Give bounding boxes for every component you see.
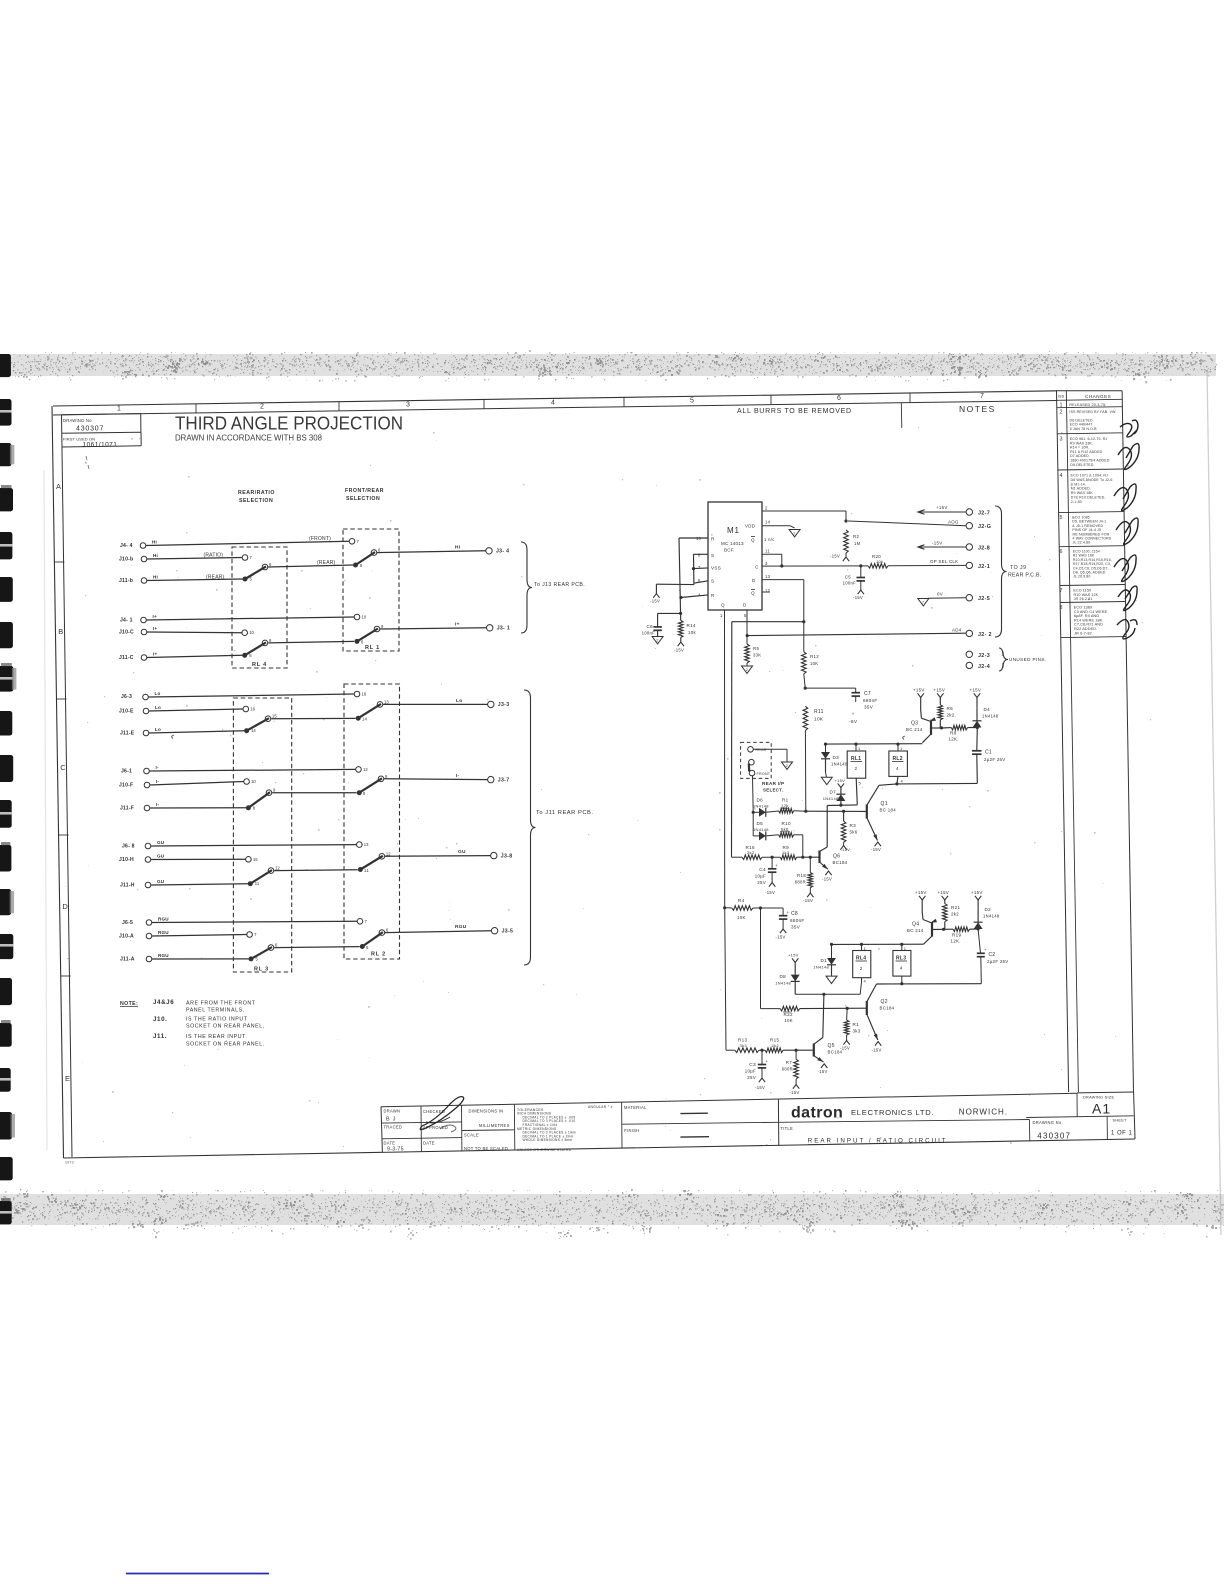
svg-text:J11-C: J11-C [119,655,134,661]
svg-text:RELEASED 20-3-75.: RELEASED 20-3-75. [1069,403,1106,407]
svg-text:+15V: +15V [934,688,946,693]
svg-text:WHOLE DIMENSIONS ± 5mm: WHOLE DIMENSIONS ± 5mm [523,1138,573,1142]
svg-text:R8: R8 [950,731,957,736]
paper edge right [1207,370,1221,1235]
svg-text:NORWICH.: NORWICH. [959,1107,1008,1116]
svg-text:5k6: 5k6 [781,827,789,832]
svg-text:C4: C4 [759,867,766,873]
diode D3 1N4148 [824,743,827,746]
svg-text:1k3: 1k3 [782,850,790,855]
diode D4 1N4148 [973,721,982,728]
svg-text:DATE: DATE [423,1141,435,1146]
svg-text:100nF: 100nF [843,581,857,586]
svg-text:-15V: -15V [790,1090,800,1095]
resistor R20 10k [868,564,888,569]
svg-text:-15V: -15V [872,1048,882,1053]
drawing number box [62,414,141,415]
svg-text:7: 7 [980,393,984,400]
svg-text:J10-C: J10-C [119,630,134,636]
brace To J11 REAR PCB [524,690,536,965]
relay RL2 contact arm GU [360,856,383,870]
svg-text:35V: 35V [791,925,801,930]
svg-text:ANGULAR ° ±: ANGULAR ° ± [588,1105,613,1109]
changes signatures [1120,420,1138,437]
svg-text:I-: I- [156,802,159,807]
resistor R1 12k [779,809,794,814]
svg-text:BC184: BC184 [828,1050,843,1055]
resistor R3 5k6 [842,810,845,813]
svg-text:GU: GU [458,849,466,855]
svg-text:RGU: RGU [455,924,467,930]
blue underline bottom [126,1573,269,1575]
wire R20 to J2-1 [888,564,966,566]
svg-text:8: 8 [361,640,364,645]
svg-text:R21: R21 [951,905,960,910]
row letter ticks left border [54,561,64,563]
node J2-2 AD4 [747,633,966,635]
svg-text:4: 4 [1060,473,1063,479]
ground J2-5 [918,599,929,606]
svg-text:+: + [984,947,987,952]
svg-text:GU: GU [157,879,165,884]
svg-text:D1: D1 [821,958,828,963]
svg-text:11: 11 [255,881,260,886]
frame right edge at notes [900,403,903,428]
transistor Q2 BC184 [866,1001,868,1015]
wire I- to RL2 [272,792,356,794]
wire top rail bottom section [832,943,924,945]
svg-text:J6-5: J6-5 [122,920,133,926]
svg-text:-15V: -15V [765,890,775,895]
wire R12 to C7 node [804,674,805,688]
wire RL3 bottom pin to Q2 rail [901,976,903,984]
wire R16 to R9 [762,856,780,858]
svg-text:ELECTRONICS LTD.: ELECTRONICS LTD. [851,1108,934,1117]
svg-text:Lo: Lo [155,705,161,710]
svg-text:DRAWN IN ACCORDANCE WITH BS 30: DRAWN IN ACCORDANCE WITH BS 308 [175,433,323,442]
svg-text:IS THE REAR INPUT: IS THE REAR INPUT [186,1034,246,1040]
svg-text:AOG: AOG [948,519,959,524]
svg-text:SHEET: SHEET [1113,1119,1128,1123]
wire D5 to R10 [766,835,779,836]
capacitor C7 680nF [804,687,807,690]
svg-text:I+: I+ [153,614,157,619]
ground D3 [826,772,827,777]
wire D8 row to RL4 [795,993,860,995]
wire C2 down to Q2 collector rail [980,957,983,984]
ground C6 [652,637,663,644]
relay RL1 coil box [854,743,857,746]
svg-text:1M: 1M [854,541,861,546]
svg-text:AD4: AD4 [952,627,962,632]
svg-text:J10-b: J10-b [119,557,133,563]
svg-text:10k: 10k [688,630,696,635]
svg-text:J3- 4: J3- 4 [496,549,509,555]
svg-text:+15V: +15V [915,890,927,895]
svg-text:10: 10 [249,630,254,635]
svg-text:R: R [711,537,715,542]
svg-text:14: 14 [765,520,771,525]
svg-text:12K.: 12K. [951,939,961,944]
svg-text:10: 10 [362,615,367,620]
svg-text:J3-7: J3-7 [498,777,510,783]
svg-text:DRAWING No: DRAWING No [63,418,92,423]
svg-text:+15V: +15V [938,890,950,895]
svg-text:DRAWING No.: DRAWING No. [1033,1120,1063,1125]
svg-text:J3-5: J3-5 [502,929,514,935]
wire rail B from pin13 node [732,621,804,623]
svg-text:J10.: J10. [153,1016,167,1023]
svg-text:FINISH: FINISH [624,1128,639,1133]
svg-text:J4&J6: J4&J6 [153,999,174,1006]
svg-text:BC 184: BC 184 [880,808,897,813]
svg-text:R13: R13 [738,1038,747,1043]
svg-text:1: 1 [1060,403,1063,409]
svg-text:5: 5 [690,397,694,404]
svg-text:-15V: -15V [841,847,851,852]
svg-text:Q: Q [751,538,755,543]
page stray specks [65,427,1151,1147]
svg-text:DIMENSIONS IN: DIMENSIONS IN [469,1108,504,1113]
svg-text:12k: 12k [781,804,789,809]
svg-text:-15V: -15V [650,599,660,604]
relay RL2 contact I- [357,790,362,795]
svg-text:35V: 35V [864,705,874,710]
svg-text:S: S [711,578,714,583]
wire R21 to base node [944,922,946,930]
wire GU output to J3-8 [385,855,491,858]
svg-text:Lo: Lo [155,727,161,732]
brace TO J9 REAR PCB [995,506,1007,637]
svg-text:R19: R19 [952,933,961,938]
stray mark c2 [903,736,905,740]
svg-text:C8: C8 [791,911,798,917]
paper crease shadow left [44,470,47,1150]
svg-text:Lo: Lo [456,698,462,704]
resistor R8 12k [942,727,951,729]
svg-text:5: 5 [366,945,369,950]
resistor R1b 3k3 [846,1007,849,1010]
wire Q5 emitter rail symbol [821,1064,827,1068]
svg-text:RL 4: RL 4 [252,662,267,668]
svg-text:GU: GU [157,840,165,845]
svg-text:REAR: REAR [756,748,767,752]
svg-text:D4: D4 [984,707,991,712]
relay RL3 contact arm RGU [251,947,272,959]
relay RL3 dashed box [233,698,291,972]
svg-text:B J: B J [386,1117,396,1123]
svg-text:4: 4 [900,965,903,970]
svg-text:J11-H: J11-H [120,883,135,889]
svg-text:FRONT: FRONT [757,772,771,776]
svg-text:Hi: Hi [153,574,158,579]
svg-text:1N4148: 1N4148 [823,796,839,801]
svg-text:M1: M1 [727,526,740,535]
svg-text:15: 15 [253,857,258,862]
resistor R16 2k2 [742,855,762,860]
svg-text:2: 2 [855,766,858,771]
wire I+ output to J3-1 [380,628,487,629]
svg-text:ECO 1071 & 1094. RJ: ECO 1071 & 1094. RJ [1071,474,1109,478]
capacitor C6 100nF [658,612,681,614]
svg-text:SELECTION: SELECTION [346,496,380,502]
transistor Q3 BC214 [920,710,923,718]
svg-text:-15V: -15V [853,595,863,600]
svg-text:14: 14 [362,717,368,722]
svg-text:FRONT/REAR: FRONT/REAR [345,488,384,494]
wire I+ to RL1 [268,641,354,643]
relay RL3 contact arm GU [250,870,272,884]
diode D6 1N4148 [753,811,759,813]
svg-text:J2-3: J2-3 [978,653,990,659]
wire relay supply rail top [826,743,923,745]
ground D1 [831,975,833,977]
junction rail A at R4 [723,906,726,909]
svg-text:MILLIMETRES: MILLIMETRES [479,1123,510,1128]
svg-text:12K.: 12K. [949,737,959,742]
resistor R10 5k6 [779,833,794,838]
node J2-5 0V [928,597,966,600]
svg-text:-6V: -6V [849,719,858,725]
svg-text:ISS: ISS [1058,395,1065,399]
wire D4 node down to C1 [976,728,979,751]
node J2-3 unused [966,651,972,657]
svg-text:5: 5 [1060,515,1063,521]
svg-text:Hi: Hi [153,553,158,558]
svg-text:MC 14013: MC 14013 [721,541,744,546]
svg-text:2: 2 [260,404,264,411]
svg-text:2: 2 [1060,410,1063,416]
svg-text:SELECTION: SELECTION [239,498,273,504]
resistor R7 680R [795,1050,797,1059]
svg-text:25V: 25V [757,880,766,885]
svg-text:J3- 1: J3- 1 [497,626,510,632]
relay RL3 contact arm Lo [247,718,269,731]
stray mark c [172,735,174,739]
wire R22 to Q2 base [800,1007,867,1009]
svg-text:SCALE: SCALE [464,1133,479,1138]
svg-text:10K: 10K [814,717,824,723]
svg-text:RGU: RGU [158,916,169,921]
svg-text:R9 WAS 18K: R9 WAS 18K [1071,491,1094,495]
svg-text:10µF: 10µF [745,1069,756,1074]
svg-text:D: D [743,603,747,608]
wire R11 down to base row [804,731,806,812]
svg-text:J11-b: J11-b [119,578,133,584]
wire node down to R22 row [760,908,762,1009]
svg-text:11: 11 [364,868,369,873]
switch contact REAR [748,747,754,753]
svg-text:-15V: -15V [818,1069,828,1074]
diode D7 1N4148 [838,783,844,787]
capacitor C8 680nF [761,907,784,909]
svg-text:CHANGES: CHANGES [1085,394,1111,399]
svg-text:RGU: RGU [158,953,169,958]
right edge of title block [1134,1092,1135,1139]
svg-text:I-: I- [456,773,460,779]
stray pencil marks [86,456,90,469]
svg-text:J10-H: J10-H [119,857,134,863]
svg-text:I+: I+ [153,626,157,631]
svg-text:13: 13 [765,574,771,579]
wire RGU to RL2 [274,947,359,948]
power -15V R1b [846,1035,848,1040]
svg-text:+: + [775,863,778,868]
svg-text:2k2.: 2k2. [947,713,957,718]
svg-text:REAR I/P: REAR I/P [762,781,784,786]
capacitor C5 100nF [859,564,862,567]
svg-text:10K: 10K [785,1018,793,1023]
svg-text:+15V: +15V [970,688,982,693]
svg-text:1N4148: 1N4148 [831,762,848,767]
svg-text:BC 214: BC 214 [907,928,924,933]
wire pins 8-7-6 tie to -15V [693,554,695,584]
wire Q3 base to R6 node [931,727,942,729]
wire REAR contact to ground [753,748,787,750]
resistor R22 10K [761,1008,781,1010]
svg-text:J2-4: J2-4 [978,664,990,670]
node J2-4 unused [966,662,972,668]
svg-text:11: 11 [765,549,770,554]
svg-text:J10-A: J10-A [119,934,134,940]
wire Q6 emitter rail symbol [825,871,831,875]
svg-text:100nF: 100nF [642,631,656,636]
wire Lo output to J3-3 [383,703,488,705]
svg-text:DATE: DATE [384,1140,396,1145]
wire Hi output to J3-4 [377,551,486,553]
svg-text:5 JAN 78 N.O.B: 5 JAN 78 N.O.B [1070,427,1097,431]
svg-text:6: 6 [837,395,841,402]
svg-text:+: + [766,1059,769,1064]
relay RL2 contact RGU [360,944,365,949]
svg-text:+: + [787,910,790,915]
relay RL1 contact arm Hi [356,552,376,565]
svg-text:8: 8 [363,791,366,796]
svg-text:J6-1: J6-1 [121,769,132,775]
svg-text:1N4148: 1N4148 [983,914,1000,919]
svg-text:(FRONT): (FRONT) [309,536,331,542]
svg-text:RGU: RGU [158,930,169,935]
svg-text:25V: 25V [747,1075,756,1080]
svg-text:680nF: 680nF [863,698,878,703]
svg-text:B: B [58,627,63,636]
svg-text:PANEL TERMINALS.: PANEL TERMINALS. [186,1008,245,1014]
svg-text:TRACED: TRACED [384,1125,403,1130]
svg-text:D7& R10 DELETED.: D7& R10 DELETED. [1071,496,1106,500]
wire RL1 bottom pin [856,778,857,805]
svg-text:ISS REVISED BY FAB. VW.: ISS REVISED BY FAB. VW. [1069,410,1116,414]
wire R15 to Q5 base [783,1049,814,1051]
wire Q1 emitter rail symbol [875,842,881,846]
wire Q1 collector rail [879,784,897,785]
title box [778,1120,1029,1123]
wire D5 branch vertical [752,812,754,836]
svg-text:+15V: +15V [913,688,925,693]
svg-text:Q4: Q4 [912,922,919,928]
svg-text:-15V: -15V [803,898,813,903]
wire R13 to R15 [759,1049,765,1051]
svg-text:-15V: -15V [871,847,881,852]
svg-text:Q3: Q3 [911,721,918,727]
svg-text:C2: C2 [989,952,996,958]
relay RL3 contact arm I- [248,792,270,808]
svg-text:+15V: +15V [835,778,846,783]
svg-text:To J13 REAR PCB.: To J13 REAR PCB. [534,582,585,588]
svg-text:6: 6 [1060,549,1063,555]
datron logo [777,1099,779,1146]
svg-text:NOTE:: NOTE: [120,1001,138,1007]
svg-text:Hi: Hi [152,539,157,544]
svg-text:J11.: J11. [153,1033,167,1040]
svg-text:J3-3: J3-3 [498,702,510,708]
relay RL1 contact I+ [355,639,360,644]
svg-text:GU: GU [157,853,165,858]
svg-text:-15V: -15V [776,935,786,940]
wire R1 to base row node [794,810,806,812]
power -15V R7 [795,1079,797,1085]
svg-text:BC184: BC184 [833,860,848,865]
wire GU to RL2 [274,869,357,872]
svg-text:16: 16 [362,692,367,697]
svg-text:1N4148: 1N4148 [753,804,769,809]
svg-text:2µ2F 25V: 2µ2F 25V [987,959,1009,964]
wire Q4 base to R21 node [932,928,945,930]
transistor Q5 BC184 [813,1044,815,1057]
svg-text:2µ2F 25V: 2µ2F 25V [984,757,1006,762]
capacitor C3 10uF [761,1050,763,1064]
svg-text:2k2: 2k2 [951,912,959,917]
svg-text:5k6: 5k6 [850,830,858,835]
capacitor C4 10uF [771,857,773,869]
svg-text:D: D [752,578,756,583]
svg-text:UNLESS OTHERWISE STATED: UNLESS OTHERWISE STATED [517,1148,572,1152]
svg-text:datron: datron [791,1105,843,1122]
svg-text:3k3: 3k3 [853,1029,861,1034]
junction R19 D2 C2 [977,927,980,930]
svg-text:SELECT.: SELECT. [763,788,783,793]
wire Q2 collector rail [877,983,982,985]
svg-text:J11-F: J11-F [120,806,134,812]
diode D1 1N4148 [827,958,836,965]
node J2-6 AOG [848,521,966,526]
svg-text:Q6: Q6 [833,854,840,860]
svg-text:13: 13 [384,699,389,704]
svg-text:3: 3 [765,561,768,566]
transistor Q4 BC214 [921,912,924,920]
svg-text:R7: R7 [786,1060,792,1065]
svg-text:C: C [755,565,759,570]
svg-text:DRAWN: DRAWN [384,1109,401,1114]
svg-text:2: 2 [765,506,768,511]
svg-text:430307: 430307 [1037,1132,1071,1141]
svg-text:J2- 2: J2- 2 [978,632,992,638]
svg-text:TITLE: TITLE [780,1126,793,1131]
svg-text:R2: R2 [853,534,859,539]
svg-text:RL 1: RL 1 [365,645,380,651]
scan noise band bottom [0,1189,1224,1240]
svg-text:J2-G: J2-G [978,524,991,530]
svg-text:RL 3: RL 3 [254,967,269,973]
relay RL2 dashed box [344,684,400,959]
resistor R11 10K [803,706,808,730]
svg-text:M1 ADDED.: M1 ADDED. [1071,487,1091,491]
svg-text:D8: D8 [780,974,787,979]
resistor R12 10K [802,652,807,674]
svg-text:8: 8 [1060,605,1063,611]
resistor R19 12k [945,928,953,930]
drawing size box [1077,1091,1134,1094]
svg-text:1 n/c: 1 n/c [764,537,775,542]
